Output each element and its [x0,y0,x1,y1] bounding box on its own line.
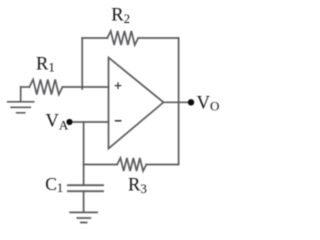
node VA (input node dot) [66,119,72,125]
ground (left, at R1 input) [8,87,34,113]
wire: C1 lower plate to bottom ground [83,191,85,212]
wire: right vertical from output node down to R3 corner [178,102,180,164]
capacitor C1 [68,185,103,191]
wire: left vertical from noninverting input node up to top feedback [81,38,83,89]
wire: top feedback left segment to R2 [82,37,107,39]
wire: branch from VA wire down to capacitor C1 [83,122,85,185]
op-amp U1 triangle [109,58,164,149]
wire: bottom feedback from C1 branch to R3 [84,164,118,166]
wire: node VA to inverting input of op-amp [70,121,109,123]
node VO (output node dot) [188,99,194,105]
resistor R2 [107,31,138,45]
op-amp plus sign (noninverting input marker) [115,82,122,89]
wire: op-amp output to node VO [164,101,192,103]
wire: R3 to bottom-right feedback corner [146,164,178,166]
wire: left ground to R1 [21,86,30,88]
ground (bottom, below C1) [70,212,97,222]
wire: R1 to noninverting input of op-amp [63,86,109,88]
wire: right vertical from top corner down to output node [178,38,180,102]
wire: top feedback right segment from R2 to corner [138,37,178,39]
resistor R3 [117,158,146,171]
resistor R1 [29,80,62,95]
op-amp minus sign (inverting input marker) [115,120,122,122]
